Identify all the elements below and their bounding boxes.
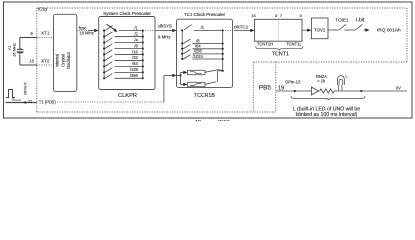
svg-text:/1: /1 — [201, 25, 205, 30]
svg-text:TC1 Clock Prescaler: TC1 Clock Prescaler — [184, 12, 226, 17]
svg-text:Crystal: Crystal — [60, 54, 65, 67]
svg-text:TCCR1B: TCCR1B — [194, 93, 215, 99]
svg-text:15: 15 — [251, 13, 256, 18]
svg-text:I-bit: I-bit — [356, 18, 365, 24]
svg-text:/128: /128 — [130, 67, 139, 72]
svg-text:8: 8 — [275, 13, 278, 18]
svg-text:L: L — [345, 74, 348, 79]
svg-text:clkTC1: clkTC1 — [234, 24, 249, 29]
svg-text:16 MHz: 16 MHz — [11, 43, 16, 57]
svg-text:/2: /2 — [134, 31, 138, 36]
svg-text:7: 7 — [280, 13, 283, 18]
svg-text:0: 0 — [300, 13, 303, 18]
svg-text:PB5: PB5 — [259, 85, 272, 92]
svg-text:Internal: Internal — [54, 54, 59, 68]
svg-text:/32: /32 — [132, 55, 138, 60]
svg-text:IRQ 001Ah: IRQ 001Ah — [377, 28, 401, 34]
svg-text:/1024: /1024 — [193, 54, 204, 59]
svg-text:16 MHz: 16 MHz — [79, 31, 93, 36]
svg-text:9: 9 — [30, 31, 33, 36]
svg-text:TCNT1L: TCNT1L — [286, 41, 302, 46]
svg-text:TCNT1H: TCNT1H — [257, 41, 273, 46]
svg-text:DPin-13: DPin-13 — [285, 80, 301, 85]
svg-text:CLKPR: CLKPR — [118, 93, 137, 99]
svg-text:TCNT1: TCNT1 — [272, 51, 289, 57]
svg-text:System Clock Prescaler: System Clock Prescaler — [103, 11, 151, 16]
svg-text:TOV1: TOV1 — [314, 27, 326, 32]
svg-text:/64: /64 — [132, 61, 138, 66]
svg-text:= 1k: = 1k — [317, 78, 326, 83]
svg-text:4B1B: 4B1B — [217, 120, 230, 121]
svg-text:IC1g: IC1g — [38, 6, 48, 11]
svg-text:11: 11 — [28, 99, 33, 104]
svg-text:XT1: XT1 — [41, 31, 50, 36]
svg-text:TOIE1: TOIE1 — [335, 18, 349, 23]
svg-text:10: 10 — [29, 58, 34, 63]
svg-text:/256: /256 — [130, 73, 139, 78]
svg-text:8 MHz: 8 MHz — [158, 34, 170, 39]
svg-text:/4: /4 — [134, 37, 138, 42]
svg-text:1B: 1B — [195, 120, 202, 121]
svg-text:XT2: XT2 — [41, 59, 50, 64]
svg-text:clkSYS: clkSYS — [158, 23, 172, 28]
svg-text:/16: /16 — [132, 49, 138, 54]
svg-text:Oscillator: Oscillator — [66, 51, 71, 69]
svg-text:blinked as 100 ms interval): blinked as 100 ms interval) — [296, 112, 358, 118]
svg-text:T1 (PD5): T1 (PD5) — [39, 99, 57, 104]
svg-text:/8: /8 — [134, 43, 138, 48]
svg-text:/8: /8 — [196, 38, 200, 43]
svg-text:/1: /1 — [134, 25, 138, 30]
svg-text:DPin-5: DPin-5 — [22, 82, 27, 95]
svg-text:0V: 0V — [396, 85, 401, 90]
